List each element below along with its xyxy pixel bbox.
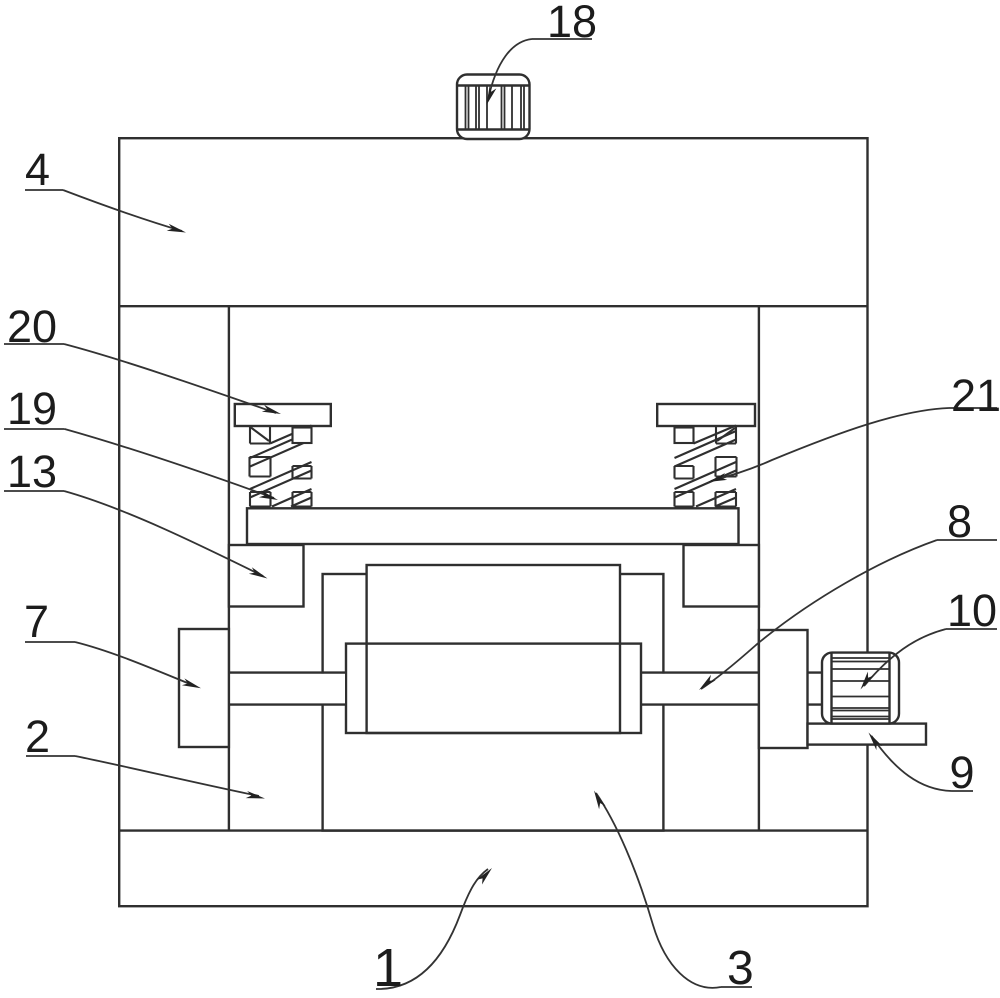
label 1 leader <box>376 869 488 989</box>
svg-text:18: 18 <box>547 0 597 47</box>
knob 18 body <box>457 75 530 140</box>
bearing block 7 left <box>179 629 229 747</box>
housing box A <box>323 574 664 831</box>
bottom band top line <box>118 829 868 831</box>
svg-text:13: 13 <box>7 446 57 497</box>
block 13 left <box>229 545 304 607</box>
svg-text:21: 21 <box>951 370 1000 421</box>
svg-text:9: 9 <box>950 747 975 798</box>
svg-text:19: 19 <box>7 383 57 434</box>
svg-text:3: 3 <box>727 942 754 995</box>
label 8 leader <box>937 539 997 541</box>
svg-text:1: 1 <box>373 938 403 998</box>
spring 19 left coil <box>250 426 312 507</box>
lifting plate under springs <box>247 508 739 544</box>
arrowhead 2 <box>246 791 265 799</box>
right wall inner line <box>758 306 760 830</box>
label 9 leader <box>952 790 974 792</box>
roller core C (3) <box>346 644 641 733</box>
label 4 leader <box>25 189 63 191</box>
arrowhead 18 <box>487 86 497 105</box>
left shaft 7-8 <box>230 674 345 704</box>
motor 10 body <box>822 653 899 724</box>
mount plate 9 <box>808 724 927 745</box>
svg-text:4: 4 <box>25 144 50 195</box>
arrowhead 13 <box>249 567 268 578</box>
frame 4 outer rectangle <box>119 138 867 906</box>
spring top plate 20 left <box>235 404 331 426</box>
svg-text:20: 20 <box>7 301 57 352</box>
svg-text:8: 8 <box>947 496 972 547</box>
label 10 leader <box>946 628 997 630</box>
label 21 leader <box>949 407 997 409</box>
arrowhead 1 <box>477 868 492 885</box>
svg-text:2: 2 <box>25 711 50 762</box>
label 20 leader <box>4 343 64 345</box>
arrowhead 8 <box>699 675 716 690</box>
arrowhead 10 <box>861 672 874 690</box>
arrowhead 20 <box>262 405 281 414</box>
arrowhead 19 <box>259 490 278 500</box>
arrowhead 21 <box>708 473 727 482</box>
right shaft 8 <box>643 674 823 704</box>
arrowhead 7 <box>182 678 201 688</box>
arrowhead 9 <box>869 733 883 751</box>
spring top plate right <box>657 404 755 426</box>
left wall inner line <box>228 306 230 830</box>
label 3 leader <box>721 986 752 988</box>
arrowhead 3 <box>594 791 606 810</box>
label 13 leader <box>4 490 64 492</box>
block right (mirror of 13) <box>684 545 759 607</box>
label 2 leader <box>26 755 75 757</box>
label 18 leader <box>532 38 592 40</box>
top band bottom line <box>118 305 868 307</box>
arrowhead 4 <box>167 224 186 233</box>
bearing block right <box>759 630 808 748</box>
label 7 leader <box>25 641 75 643</box>
central box B <box>367 565 620 733</box>
svg-text:7: 7 <box>24 596 49 647</box>
spring 21 right coil (mirror) <box>675 426 737 507</box>
svg-text:10: 10 <box>947 585 997 636</box>
label 19 leader <box>4 428 65 430</box>
